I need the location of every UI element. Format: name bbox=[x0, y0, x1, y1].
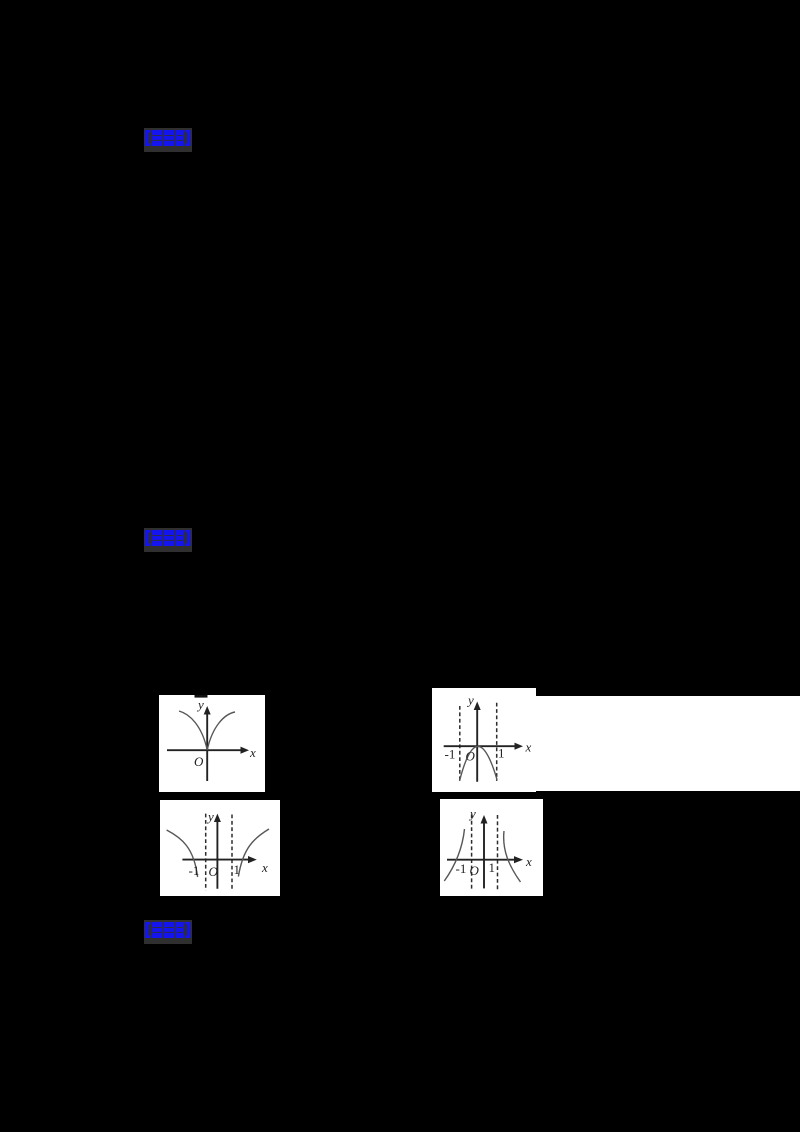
svg-text:x: x bbox=[249, 745, 256, 760]
x axis bbox=[447, 859, 516, 861]
x axis bbox=[182, 859, 249, 861]
graph C box bbox=[160, 800, 280, 896]
svg-text:y: y bbox=[196, 697, 204, 712]
curve left branch bbox=[167, 830, 198, 877]
svg-text:O: O bbox=[209, 864, 219, 879]
svg-text:y: y bbox=[468, 806, 476, 821]
curve right branch bbox=[504, 831, 521, 882]
crop notch at top edge bbox=[195, 695, 208, 698]
dashed asymptote x=1 bbox=[497, 815, 499, 890]
y axis bbox=[483, 821, 485, 888]
graph B box bbox=[432, 688, 536, 793]
y axis bbox=[476, 707, 478, 781]
dashed asymptote x=-1 bbox=[205, 814, 207, 891]
dashed asymptote x=-1 bbox=[471, 814, 473, 890]
answer label 1 bbox=[144, 128, 192, 152]
svg-text:1: 1 bbox=[489, 860, 496, 875]
curve left branch bbox=[444, 829, 464, 881]
svg-text:-1: -1 bbox=[456, 861, 467, 876]
svg-text:O: O bbox=[470, 863, 480, 878]
dashed asymptote x=-1 bbox=[459, 706, 461, 782]
svg-text:-1: -1 bbox=[445, 746, 456, 761]
svg-text:-1: -1 bbox=[189, 863, 200, 878]
curve left bbox=[179, 711, 207, 750]
svg-text:y: y bbox=[206, 809, 214, 824]
curve right branch bbox=[238, 829, 269, 877]
y axis bbox=[206, 712, 208, 781]
x axis bbox=[444, 745, 516, 747]
svg-text:x: x bbox=[525, 854, 532, 869]
white band right of graph B bbox=[536, 696, 800, 791]
curve hump bbox=[460, 746, 498, 781]
svg-text:x: x bbox=[525, 739, 532, 754]
answer label 3 bbox=[144, 920, 192, 944]
svg-text:1: 1 bbox=[234, 862, 241, 877]
x axis bbox=[167, 749, 242, 751]
y axis bbox=[216, 820, 218, 889]
curve right bbox=[207, 712, 235, 750]
dashed asymptote x=1 bbox=[231, 815, 233, 890]
graph D box bbox=[440, 799, 543, 896]
svg-text:x: x bbox=[261, 860, 268, 875]
svg-text:O: O bbox=[194, 754, 204, 769]
graph A box bbox=[159, 695, 265, 792]
svg-text:O: O bbox=[466, 748, 476, 763]
answer label 2 bbox=[144, 528, 192, 552]
dashed asymptote x=1 bbox=[496, 702, 498, 780]
svg-text:1: 1 bbox=[498, 745, 505, 760]
svg-text:y: y bbox=[466, 692, 474, 707]
